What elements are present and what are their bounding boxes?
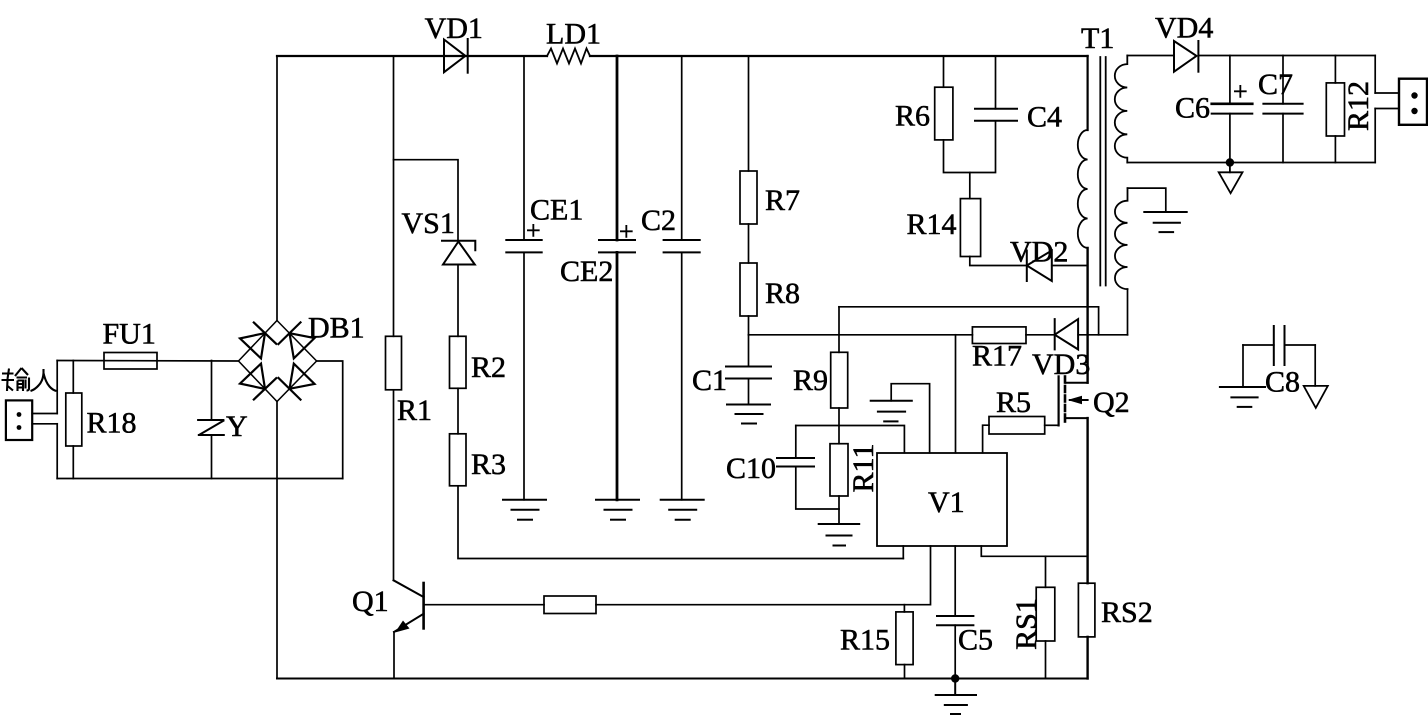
wire VS1 to R2 — [457, 265, 459, 337]
resistor R6 — [935, 87, 953, 140]
ground for C2 — [661, 500, 704, 520]
output connector dot 1 — [1411, 92, 1417, 98]
svg-text:C10: C10 — [726, 452, 776, 485]
wire input loop bottom — [57, 478, 343, 480]
svg-text:Q1: Q1 — [352, 585, 389, 618]
svg-text:R1: R1 — [397, 394, 432, 427]
wire connector stub lower — [32, 423, 57, 425]
wire R9 riser — [838, 307, 840, 353]
svg-text:+: + — [619, 217, 634, 246]
svg-text:DB1: DB1 — [308, 312, 365, 345]
junction dot C5 bottom — [951, 674, 959, 682]
svg-text:T1: T1 — [1081, 22, 1114, 55]
svg-text:RS2: RS2 — [1101, 596, 1153, 629]
resistor R15 — [896, 612, 913, 665]
svg-text:C5: C5 — [958, 624, 993, 657]
resistor R18 — [66, 361, 82, 479]
transformer T1 aux winding — [1115, 188, 1128, 289]
wire output bottom — [1127, 162, 1375, 164]
svg-text:+: + — [1233, 77, 1248, 106]
svg-text:R17: R17 — [972, 340, 1022, 373]
wire top bus to R7 — [748, 56, 750, 171]
ground for V1 pin — [871, 401, 912, 422]
resistor R12 — [1326, 56, 1344, 163]
wire Q1 base line left part — [424, 604, 544, 606]
secondary common net arrow below C6 — [1219, 163, 1243, 194]
fuse FU1 — [104, 353, 157, 370]
wire R3 down and right to V1 (line y557) — [458, 486, 903, 559]
resistor R7 — [740, 171, 757, 224]
wire V1 sense line to Q2 source — [981, 546, 1087, 556]
diode VD3 — [1055, 319, 1078, 349]
wire input loop left vertical — [56, 361, 58, 414]
ground for CE1 — [503, 500, 546, 520]
ground at bottom bus — [936, 679, 976, 715]
resistor R11 — [830, 444, 848, 496]
svg-text:C2: C2 — [641, 204, 676, 237]
wire VD2 to primary bottom — [1052, 265, 1088, 267]
svg-text:C6: C6 — [1175, 92, 1210, 125]
bridge DB1 diode on top-left side — [240, 323, 276, 359]
wire RS1 tap — [1045, 556, 1047, 587]
wire upper line y307 to VD3 anode — [839, 307, 1099, 335]
transformer T1 primary winding — [1078, 130, 1088, 248]
capacitor C4 — [975, 56, 1017, 121]
wire input loop top — [57, 360, 238, 363]
svg-text:VD2: VD2 — [1010, 236, 1068, 269]
resistor base (unlabeled) — [544, 596, 596, 614]
wire DB1 minus down to bottom bus — [276, 402, 278, 679]
capacitor C1 — [726, 367, 771, 379]
wire snubber branch R6 — [943, 56, 945, 87]
wire C10 node line — [796, 426, 905, 453]
ground for CE2 — [596, 500, 639, 520]
wire V1 to R5 — [983, 425, 989, 453]
resistor R9 — [831, 352, 848, 408]
transformer T1 core bar left — [1099, 57, 1101, 286]
wire V1 ground pin L-shape — [891, 384, 929, 453]
wire base line right part to V1 — [596, 546, 931, 605]
svg-text:R6: R6 — [895, 100, 930, 133]
svg-text:R8: R8 — [765, 277, 800, 310]
mosfet Q2 — [1059, 376, 1088, 425]
svg-text:R18: R18 — [87, 407, 137, 440]
svg-text:RS1: RS1 — [1010, 598, 1043, 650]
wire R9 to C10 node — [838, 408, 840, 444]
wire R15 to bottom bus — [904, 665, 906, 679]
svg-text:VD1: VD1 — [425, 12, 483, 45]
svg-text:Y: Y — [226, 410, 248, 443]
resistor RS2 — [1078, 583, 1095, 637]
wire Q2 source down to RS2 — [1086, 418, 1088, 583]
svg-text:VS1: VS1 — [402, 207, 455, 240]
svg-text:VD4: VD4 — [1155, 12, 1213, 45]
wire R14 to VD2 — [970, 257, 1027, 266]
svg-text:CE2: CE2 — [560, 255, 613, 288]
wire VD3 anode to aux winding — [1078, 334, 1127, 336]
wire R8 to node line y335 — [748, 316, 750, 335]
wire connector stub upper — [32, 413, 57, 415]
wire riser to DB1 right vertex — [317, 361, 343, 479]
svg-text:FU1: FU1 — [103, 318, 156, 351]
wire R1 to Q1 collector — [393, 390, 395, 581]
resistor R17 — [972, 327, 1026, 344]
wire R1 rail from top bus — [393, 56, 395, 336]
wire C8 right to net arrow — [1314, 345, 1316, 386]
svg-text:R11: R11 — [847, 444, 880, 493]
wire V1 pin riser x955 — [955, 335, 957, 453]
wire primary top lead — [1086, 56, 1088, 130]
secondary common net arrow at C8 — [1304, 386, 1328, 408]
wire output right vertical — [1374, 56, 1376, 94]
wire output connector stub upper — [1375, 92, 1399, 94]
capacitor CE1 — [506, 56, 541, 500]
wire RS2 to bottom bus — [1086, 637, 1088, 679]
bridge DB1 diode on bottom-right side — [278, 364, 314, 400]
wire output connector stub lower — [1375, 108, 1399, 110]
diode VD1 — [444, 39, 468, 73]
wire C8 left to ground — [1242, 345, 1244, 387]
diode VD4 — [1174, 41, 1198, 72]
bridge DB1 diamond ring — [239, 321, 317, 402]
IC V1 — [877, 453, 1007, 546]
junction dot C6 bottom — [1226, 158, 1234, 166]
wire output top — [1198, 55, 1375, 57]
ground for R11 — [819, 524, 860, 546]
svg-text:LD1: LD1 — [546, 18, 601, 51]
wire node line y335 from R8 to R17 — [749, 334, 973, 336]
capacitor C8 (horizontal) — [1243, 326, 1315, 365]
wire secondary top to VD4 — [1127, 55, 1174, 57]
svg-text:R5: R5 — [996, 386, 1031, 419]
wire R17 to VD3 — [1026, 334, 1055, 336]
svg-text:C7: C7 — [1258, 68, 1293, 101]
ground for C8 — [1220, 387, 1265, 407]
svg-text:V1: V1 — [928, 486, 965, 519]
wire R6 bottom join — [944, 121, 996, 173]
wire bottom bus — [277, 678, 1088, 680]
wire R5 to Q2 gate — [1045, 424, 1059, 426]
transistor Q1 — [394, 580, 424, 632]
input connector dot 1 — [17, 412, 22, 417]
resistor RS1 — [1036, 587, 1055, 641]
capacitor C10 — [777, 426, 839, 510]
wire branch to VS1 — [394, 160, 459, 241]
resistor R2 — [450, 336, 467, 388]
zener VS1 — [442, 241, 475, 265]
resistor R3 — [450, 434, 467, 486]
wire aux top to ground — [1128, 188, 1166, 212]
resistor R5 — [989, 417, 1045, 435]
svg-text:R14: R14 — [907, 208, 957, 241]
wire top bus right segment — [590, 55, 1088, 57]
bridge DB1 diode on bottom-left side — [240, 364, 276, 400]
input connector dot 2 — [17, 425, 22, 430]
capacitor CE2 — [599, 56, 635, 500]
wire left rail from top bus to DB1 plus — [276, 56, 278, 321]
label input (Chinese shu-ru) drawn strokes — [2, 368, 57, 391]
svg-text:R15: R15 — [840, 624, 890, 657]
ground for aux winding — [1144, 212, 1186, 232]
svg-text:R2: R2 — [471, 351, 506, 384]
transformer T1 core bar right — [1105, 57, 1107, 286]
wire RS1 to bottom bus — [1045, 641, 1047, 679]
svg-text:C1: C1 — [692, 364, 727, 397]
wire V1 pin to line y558 — [902, 546, 904, 559]
wire Q1 emitter to bottom bus — [393, 632, 395, 679]
inductor LD1 (zigzag) — [547, 49, 590, 64]
svg-text:Q2: Q2 — [1093, 386, 1130, 419]
bridge DB1 diode on top-right side — [278, 322, 314, 358]
wire R7 to R8 — [748, 224, 750, 263]
wire R2 to R3 — [457, 388, 459, 434]
svg-text:R3: R3 — [471, 448, 506, 481]
output connector dot 2 — [1411, 108, 1417, 114]
transformer T1 secondary winding top — [1115, 56, 1128, 163]
wire join to R14 — [969, 173, 971, 199]
resistor R8 — [740, 263, 757, 316]
svg-text:C8: C8 — [1265, 366, 1300, 399]
capacitor C6 — [1212, 56, 1253, 163]
output connector box — [1399, 79, 1427, 125]
input connector box — [6, 400, 32, 440]
capacitor C7 — [1263, 56, 1302, 163]
wire R15 stub from base line — [903, 605, 905, 612]
diode VD2 — [1027, 251, 1052, 282]
wire top bus left segment — [277, 55, 547, 57]
ground for C1 — [727, 405, 770, 424]
svg-text:R12: R12 — [1342, 81, 1375, 131]
wire C1 to ground — [748, 379, 750, 405]
wire node down to C1 — [748, 335, 750, 367]
svg-text:R7: R7 — [765, 184, 800, 217]
svg-text:R9: R9 — [793, 364, 828, 397]
capacitor C5 — [937, 546, 973, 679]
resistor R1 — [386, 336, 402, 390]
svg-text:C4: C4 — [1027, 101, 1062, 134]
wire primary bottom to Q2 drain — [1086, 248, 1088, 383]
capacitor C2 — [664, 56, 700, 500]
resistor R14 — [960, 199, 980, 257]
wire R11 to ground — [838, 496, 840, 524]
svg-text:VD3: VD3 — [1032, 348, 1090, 381]
varistor Y — [198, 361, 224, 479]
svg-text:CE1: CE1 — [530, 194, 583, 227]
wire aux bottom to VD3 anode — [1127, 289, 1129, 335]
